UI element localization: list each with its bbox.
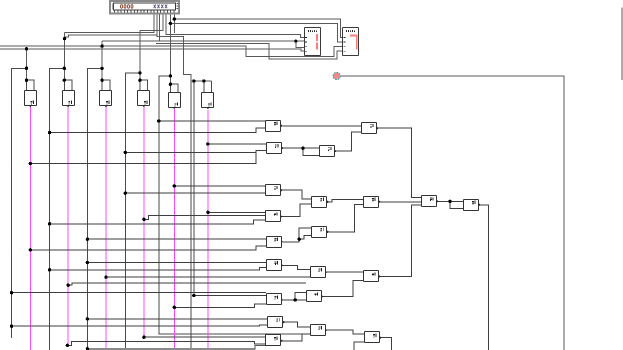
xor gate U10 bbox=[422, 196, 439, 207]
wire tap M4 to U21 upper bbox=[144, 336, 266, 338]
node band join bbox=[86, 347, 89, 350]
wire U15 out up to U10 lower bbox=[379, 205, 422, 277]
ROM value 0000 bbox=[121, 5, 134, 9]
node U2 out bbox=[301, 147, 304, 150]
node D3 join bbox=[100, 44, 103, 47]
xor gate U18 bbox=[268, 317, 286, 328]
wire U20 lower riser bbox=[354, 342, 365, 350]
wire tap B1 y292.7 bbox=[12, 292, 266, 294]
wire tap B4 to U5 lower bbox=[125, 192, 265, 194]
wire bus B5 bbox=[159, 76, 310, 334]
seven segment display DS2 bbox=[343, 28, 359, 56]
wire U4 out down to U10 upper bbox=[377, 128, 422, 197]
node tap B2 y223.8 bbox=[48, 222, 51, 225]
wire ROM pin A3 bbox=[140, 13, 163, 30]
seven segment display DS1 bbox=[305, 28, 321, 56]
wire bus B6b bbox=[193, 81, 195, 296]
wire tap M2 jog to U21 lower bbox=[67, 342, 265, 346]
node bus branch 4 bbox=[138, 71, 141, 74]
driver gate D3 bbox=[100, 80, 112, 107]
wire tap B6b to U17 upper bbox=[194, 295, 266, 297]
wire input pin to right edge bbox=[340, 76, 564, 350]
wire net D2 jog bbox=[65, 35, 157, 37]
wire U21 out up to U19 area bbox=[281, 334, 310, 341]
wire U18 out to U19 upper bbox=[283, 322, 310, 327]
wire ROM pin A6 bbox=[173, 13, 175, 33]
node D1 join bbox=[25, 47, 28, 50]
node tap B4 y193.2 bbox=[124, 192, 127, 195]
node tap B6 y295.5 bbox=[192, 294, 195, 297]
node U22 out riser bbox=[298, 238, 301, 241]
wire U6 out to U8 upper bbox=[327, 200, 364, 202]
wire magenta M3 bbox=[105, 107, 107, 350]
node U17 out bbox=[294, 298, 297, 301]
xor gate U17 bbox=[267, 294, 284, 305]
xor gate U13 bbox=[267, 260, 284, 271]
node tap B3 y239.2 bbox=[86, 238, 89, 241]
node bridge D3 bbox=[100, 79, 103, 82]
wire ROM pin A4 bbox=[166, 13, 304, 38]
wire U2 out to U3 bbox=[281, 147, 319, 149]
wire tap M4 jog to U7 mid bbox=[144, 216, 265, 220]
wire U17 out branch up to U16 upper bbox=[295, 292, 306, 300]
node bridge D5 bbox=[169, 83, 172, 86]
node tap M6 y144 bbox=[206, 142, 209, 145]
driver gate D2 bbox=[63, 80, 75, 107]
wire tap B2 to U1 lower bbox=[50, 128, 266, 133]
wire net D5 to 7seg right pin2 bbox=[170, 23, 343, 42]
node tap B1 y326.2 bbox=[10, 325, 13, 328]
node bus branch 1 bbox=[25, 67, 28, 70]
wire tap M6 to U2 upper bbox=[208, 143, 267, 145]
wire bus B4 bbox=[125, 73, 140, 350]
wire bus B1 bbox=[12, 68, 27, 338]
wire U20 out down bbox=[380, 338, 392, 350]
node tap M3 y277.1 bbox=[104, 275, 107, 278]
node bridge D2 bbox=[63, 79, 66, 82]
wire U10 out branch to U12 lower bbox=[450, 201, 464, 208]
wire net D1 drop bbox=[26, 49, 28, 80]
xor gate U22 bbox=[267, 237, 284, 248]
wire bus B6a bbox=[190, 81, 192, 350]
wire net D3 drop bbox=[101, 41, 103, 80]
ROM display register U0 bbox=[110, 1, 179, 13]
node ROM A6 tee bbox=[173, 17, 176, 20]
wire bus B2 bbox=[50, 68, 65, 350]
xor gate U6 bbox=[312, 197, 330, 208]
wire magenta M1 bbox=[29, 107, 31, 350]
xor gate U7 bbox=[266, 211, 283, 222]
wire tap M6 to U7 upper bbox=[208, 211, 266, 213]
xor gate U9 bbox=[312, 227, 330, 238]
node bus branch 2 bbox=[63, 67, 66, 70]
xor gate U14 bbox=[311, 267, 328, 278]
wire ROM pin A1 bbox=[157, 13, 191, 81]
wire horizontal y43.4 to right display pin4 bbox=[156, 43, 343, 59]
wire U22 out to U9 riser bbox=[283, 228, 312, 242]
wire tap M5 to U17 lower bbox=[174, 304, 266, 307]
wire magenta M4 bbox=[143, 107, 145, 337]
node tap B2 y269.8 bbox=[48, 268, 51, 271]
wire bottom band bbox=[87, 348, 255, 350]
node bridge D4 bbox=[138, 79, 141, 82]
node tap B5 y121 bbox=[157, 119, 160, 122]
wire tap B1 to U18 lower bbox=[12, 325, 268, 326]
xor gate U4 bbox=[362, 123, 379, 134]
wire U22 out branch to U9 lower bbox=[299, 235, 312, 239]
ROM value XXXX bbox=[154, 5, 168, 9]
wire magenta M2 bbox=[67, 107, 69, 346]
wire ROM pin A2 bbox=[159, 13, 161, 41]
wire tap M3 to U14 lower bbox=[106, 276, 310, 278]
xor gate U1 bbox=[266, 121, 284, 132]
node tap M5 y307.3 bbox=[173, 306, 176, 309]
node bus branch 6 bbox=[192, 79, 195, 82]
wire U2 out branch to U3 lower bbox=[303, 148, 320, 155]
node tap M4 y337.2 bbox=[142, 336, 145, 339]
wire tap B5 to U1 upper bbox=[159, 120, 266, 122]
xor gate U15 bbox=[364, 271, 382, 282]
wire U8 out to U10 bbox=[379, 201, 422, 203]
node tap M6 y212.3 bbox=[206, 211, 209, 214]
wire tap M5 to U5 upper bbox=[174, 185, 265, 187]
node bus branch 5 bbox=[169, 74, 172, 77]
wire tap B2 to U13 lower bbox=[50, 268, 267, 270]
node tap M1 y163.6 bbox=[29, 162, 32, 165]
wire tap M1 to U2 lower bbox=[30, 150, 266, 163]
xor gate U16 bbox=[307, 291, 324, 302]
wire D6 bridge feed bbox=[191, 80, 212, 82]
xor gate U8 bbox=[364, 197, 382, 208]
xor gate U5 bbox=[266, 185, 283, 196]
wire magenta M5 bbox=[173, 109, 175, 350]
node tap M5 y185.9 bbox=[173, 184, 176, 187]
node tap M4 y219.3 bbox=[142, 218, 145, 221]
xor gate U3 bbox=[320, 146, 337, 157]
wire band connector bbox=[255, 345, 266, 349]
wire U13 out to U14 upper bbox=[281, 265, 310, 269]
wire U3 out to U4 lower bbox=[335, 132, 362, 151]
wire long horizontal y46.1 to right display pin3 bbox=[0, 46, 343, 56]
node bus branch 3 bbox=[100, 67, 103, 70]
node bridge D6 bbox=[202, 79, 205, 82]
wire U14 out to U15 upper bbox=[325, 271, 364, 273]
driver gate D1 bbox=[25, 80, 37, 107]
wire tap B3 to U18 upper bbox=[87, 318, 267, 320]
wire ROM pin A0 bbox=[65, 13, 154, 32]
xor gate U2 bbox=[267, 143, 284, 154]
node tap B1 y292.7 bbox=[10, 291, 13, 294]
node bridge D1 bbox=[25, 79, 28, 82]
node U10 out bbox=[448, 200, 451, 203]
wire U1 out to U4 bbox=[283, 125, 362, 127]
xor gate U20 bbox=[365, 332, 383, 343]
wire tap M1 to U22 lower bbox=[30, 246, 266, 250]
wire tap M2 jog y283.2 bbox=[68, 283, 306, 285]
driver gate D6 bbox=[202, 81, 214, 109]
wire long horizontal y48.9 to left display pin4 bbox=[0, 49, 304, 51]
node display branch bbox=[294, 40, 297, 43]
wire net D5 drop bbox=[169, 23, 171, 84]
wire tap B4 y152 bbox=[125, 151, 256, 153]
node tap M1 y249.9 bbox=[29, 248, 32, 251]
wire U16 out to U15 lower bbox=[321, 280, 364, 296]
input pin P1 bbox=[333, 72, 340, 79]
xor gate U12 bbox=[464, 200, 481, 211]
xor gate U21 bbox=[266, 335, 284, 346]
node tap B3 y318.9 bbox=[86, 317, 89, 320]
wire ROM pin A5 bbox=[169, 13, 171, 23]
wire U12 out down right side bbox=[479, 205, 489, 350]
driver gate D4 bbox=[138, 80, 150, 107]
node tap B3 y262.5 bbox=[86, 261, 89, 264]
wire U17 out to U16 bbox=[282, 299, 307, 301]
wire bus B3 bbox=[87, 68, 102, 348]
wire right edge vertical bbox=[621, 8, 623, 80]
wire U5 out to U6 upper bbox=[281, 190, 312, 199]
wire tap B3 to U22 upper bbox=[87, 238, 266, 240]
wire U10 out to U12 bbox=[437, 200, 464, 202]
wire magenta M6 bbox=[207, 110, 209, 350]
wire U7 out to U6 lower bbox=[281, 204, 312, 216]
wire tap B3 to U13 upper bbox=[87, 262, 266, 264]
xor gate U19 bbox=[311, 325, 328, 336]
node tap B2 y132.6 bbox=[48, 131, 51, 134]
wire tap B2 to U7 lower bbox=[50, 220, 266, 224]
wire net D4 drop bbox=[139, 30, 141, 80]
node tap M2 y285.2 bbox=[67, 284, 70, 287]
wire U19 out to U20 upper bbox=[325, 330, 365, 334]
wire U9 out to U8 lower bbox=[327, 205, 364, 232]
wire net D2 drop bbox=[63, 32, 65, 80]
node tap M2 y345.4 bbox=[66, 344, 69, 347]
wire net D3 horizontal to 7seg left pin2 bbox=[102, 41, 304, 48]
node D2 join bbox=[63, 37, 66, 40]
node ROM A5 tee bbox=[169, 22, 172, 25]
wire net D6 to 7seg right pin1 bbox=[174, 19, 343, 37]
node tap B4 y152.4 bbox=[124, 151, 127, 154]
driver gate D5 bbox=[169, 84, 181, 109]
